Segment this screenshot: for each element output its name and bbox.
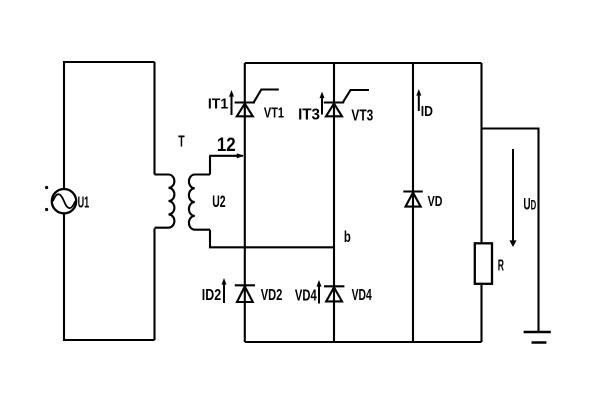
resistor R body <box>475 243 492 283</box>
thyristor VT3 gate <box>343 90 369 102</box>
arrow ID <box>418 96 420 112</box>
arrow ID2 <box>223 285 225 304</box>
transformer T secondary winding <box>189 175 210 230</box>
wire: primary loop right side upper <box>153 62 155 175</box>
svg-text:IT1: IT1 <box>208 95 228 112</box>
arrow ID4 <box>318 287 320 304</box>
diode VD4 <box>324 286 344 301</box>
wire: output branch top <box>482 129 539 333</box>
svg-text:U1: U1 <box>78 195 90 212</box>
diode VD2 <box>235 285 255 302</box>
arrow IT3 <box>321 98 323 115</box>
svg-text:VD4: VD4 <box>295 287 317 304</box>
svg-text:U2: U2 <box>212 192 225 211</box>
thyristor VT1 <box>235 103 255 117</box>
source U1 circle <box>52 189 76 213</box>
wire: secondary top lead to node a <box>209 156 239 175</box>
svg-text:b: b <box>344 229 351 246</box>
wire: bridge top bus <box>245 62 482 64</box>
arrow UD output voltage <box>512 149 514 241</box>
svg-text:R: R <box>498 258 504 275</box>
svg-text:ID: ID <box>421 103 433 120</box>
dot lower near source <box>45 208 48 211</box>
wire: bridge middle leg <box>333 63 335 342</box>
wire: primary loop left/top/bottom <box>64 62 155 340</box>
svg-text:VT1: VT1 <box>264 105 284 122</box>
thyristor VT1 gate <box>254 90 279 103</box>
svg-text:T: T <box>178 133 185 150</box>
wire: bridge right leg <box>480 63 482 342</box>
svg-text:IT3: IT3 <box>298 107 320 124</box>
svg-text:VD: VD <box>428 194 443 210</box>
svg-text:ID2: ID2 <box>202 287 221 304</box>
svg-text:VD2: VD2 <box>261 287 283 304</box>
dot upper near source <box>45 186 48 189</box>
wire: secondary bottom lead to node b <box>210 230 334 248</box>
arrow I2 on secondary lead <box>236 155 243 157</box>
wire: primary loop right side lower <box>153 229 155 341</box>
thyristor VT3 <box>324 103 344 117</box>
svg-text:VT3: VT3 <box>351 107 373 124</box>
diode VD freewheeling <box>403 192 423 207</box>
ground <box>524 332 551 343</box>
svg-text:12: 12 <box>217 135 236 156</box>
wire: bridge left leg <box>244 63 246 342</box>
svg-text:VD4: VD4 <box>352 287 372 304</box>
arrow IT1 <box>231 97 233 116</box>
wire: bridge bottom bus <box>245 341 482 343</box>
transformer T primary winding <box>155 175 175 228</box>
source U1 sine <box>53 194 75 208</box>
wire: freewheel diode leg <box>412 63 414 342</box>
svg-text:UD: UD <box>523 195 536 213</box>
